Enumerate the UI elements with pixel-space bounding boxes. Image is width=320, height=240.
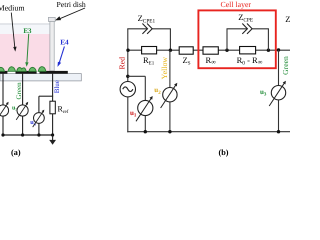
wire electrode 2 bbox=[22, 74, 24, 105]
bottom wire (b) bbox=[127, 131, 290, 133]
wire bbox=[22, 116, 24, 135]
meter u3 (a) bbox=[17, 105, 28, 116]
AC source bbox=[120, 82, 135, 97]
svg-text:(b): (b) bbox=[219, 148, 229, 157]
medium (pink) bbox=[0, 34, 50, 71]
petri dish wall cap bbox=[48, 17, 55, 21]
cell 3 bbox=[17, 68, 27, 72]
svg-text:Cell layer: Cell layer bbox=[221, 0, 252, 9]
wire bbox=[2, 116, 4, 135]
svg-text:(a): (a) bbox=[11, 148, 21, 157]
junction dot bbox=[225, 49, 228, 52]
CPE 1 bbox=[142, 24, 152, 34]
meter u4 bbox=[34, 113, 45, 124]
cell 5 bbox=[38, 67, 46, 72]
resistor R_ref bbox=[50, 101, 55, 114]
arrow E3 bbox=[27, 34, 29, 63]
svg-text:E3: E3 bbox=[23, 27, 32, 35]
junction dot bbox=[267, 49, 270, 52]
meter u3 (b) bbox=[271, 86, 285, 100]
petri dish rim line bbox=[0, 23, 50, 25]
junction dots bottom (b) bbox=[144, 130, 147, 133]
electrode bar segment 3 bbox=[40, 71, 68, 74]
svg-text:Green: Green bbox=[281, 56, 290, 75]
arrow petri dish bbox=[58, 8, 85, 20]
svg-text:Blue: Blue bbox=[53, 80, 61, 93]
cell 2 bbox=[8, 67, 16, 72]
svg-text:Medium: Medium bbox=[0, 4, 25, 13]
svg-text:Z: Z bbox=[285, 14, 290, 24]
meter u1 bbox=[138, 100, 153, 115]
top branch 2 bbox=[226, 29, 228, 50]
svg-text:Red: Red bbox=[117, 57, 126, 70]
resistor R_E1 bbox=[142, 47, 157, 54]
svg-text:Yellow: Yellow bbox=[160, 57, 169, 80]
bottom wire (a) bbox=[2, 134, 52, 136]
top branch 1 bbox=[127, 28, 147, 30]
CPE 2 bbox=[242, 24, 252, 34]
arrow medium bbox=[11, 13, 15, 48]
meter u2 bbox=[163, 88, 177, 102]
junction dot right bbox=[277, 48, 280, 51]
wire bbox=[52, 114, 54, 135]
junction dot bbox=[126, 49, 129, 52]
wire branch to u4 bbox=[39, 95, 53, 97]
wire bbox=[278, 100, 280, 132]
cell layer box bbox=[198, 10, 275, 68]
cell 1 bbox=[0, 67, 4, 71]
wire electrode 1 bbox=[2, 74, 4, 105]
main wire (b) bbox=[128, 49, 290, 51]
dish air band bbox=[0, 24, 50, 34]
junction dots (a) bbox=[1, 133, 4, 136]
resistor R_inf bbox=[203, 47, 218, 54]
svg-text:Green: Green bbox=[15, 82, 23, 100]
electrode bar segment 1 bbox=[0, 71, 7, 74]
wire bbox=[169, 102, 171, 132]
substrate bbox=[0, 74, 81, 81]
svg-text:E4: E4 bbox=[60, 38, 69, 47]
wire bbox=[144, 116, 146, 132]
resistor R0 - Rinf bbox=[240, 47, 256, 54]
ground bbox=[52, 135, 54, 140]
cell 4 bbox=[29, 67, 36, 71]
junction dot u1 branch bbox=[126, 75, 129, 78]
electrode bar segment 2 bbox=[16, 71, 37, 74]
resistor Z_S bbox=[179, 47, 193, 54]
left wire (red node) bbox=[127, 29, 129, 82]
wire bbox=[38, 123, 40, 135]
svg-text:Petri dish: Petri dish bbox=[57, 0, 86, 9]
arrow E4 bbox=[59, 47, 64, 63]
wire u2 bbox=[169, 50, 171, 88]
junction dot bbox=[169, 49, 172, 52]
wire u3 (b) bbox=[278, 50, 280, 86]
wire u1 branch bbox=[128, 75, 146, 77]
meter (left, cut) bbox=[0, 105, 9, 116]
wire bbox=[127, 97, 129, 132]
wire electrode 3 (blue) bbox=[52, 74, 54, 102]
petri dish wall bbox=[50, 21, 54, 71]
